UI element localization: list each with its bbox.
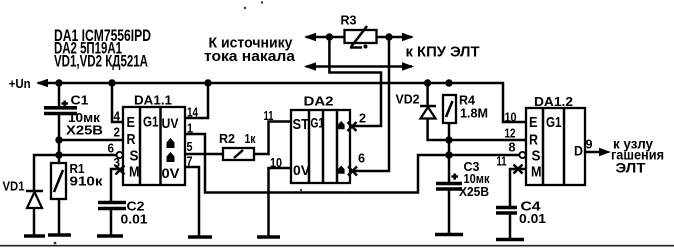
svg-text:10: 10 [270, 155, 282, 170]
ground R1 [48, 233, 71, 237]
svg-text:E: E [529, 114, 538, 131]
diode VD1 [26, 191, 43, 236]
node C1 S junction [55, 151, 62, 158]
svg-text:DA1.1: DA1.1 [134, 94, 172, 108]
ground C2 [97, 234, 123, 238]
wire from R3 right terminal to DA2 pin 6 [350, 37, 389, 171]
ground C4 [496, 238, 524, 242]
svg-text:ST: ST [293, 116, 310, 133]
x marker pin2 DA2 [348, 122, 357, 131]
svg-text:M: M [531, 164, 542, 181]
svg-text:5: 5 [187, 139, 193, 154]
svg-text:14: 14 [187, 105, 199, 120]
svg-text:G1: G1 [143, 114, 159, 131]
svg-text:DA2: DA2 [304, 95, 334, 109]
svg-text:10: 10 [505, 110, 517, 125]
resistor R2 [223, 148, 254, 160]
wire line B with arrows both ends [306, 65, 412, 68]
node R3 left [326, 33, 333, 40]
svg-text:S: S [532, 148, 541, 165]
ground VD1 [24, 234, 45, 238]
wire DA1.1 E pin from rail [112, 83, 123, 122]
diode VD2 [420, 83, 449, 140]
wire M to C2 [111, 169, 123, 202]
svg-text:UV: UV [162, 116, 179, 131]
node C1 R junction [55, 136, 62, 143]
ground DA1.1 [188, 235, 212, 239]
capacitor C1 [44, 83, 77, 163]
svg-text:D: D [574, 143, 583, 159]
svg-text:0V: 0V [162, 166, 180, 181]
trimmer resistor R3 [345, 26, 377, 49]
resistor R1 [51, 163, 66, 235]
svg-text:DA1.2: DA1.2 [534, 95, 573, 109]
svg-text:9: 9 [586, 137, 593, 152]
svg-text:C1: C1 [71, 93, 89, 108]
capacitor C2 [98, 203, 126, 237]
power +Un arrow [36, 79, 48, 87]
wire output pin5 to R2 [185, 153, 223, 156]
svg-text:4: 4 [114, 109, 121, 124]
svg-text:+Un: +Un [9, 76, 31, 91]
wire +Un supply rail [38, 83, 526, 122]
node rail C1 junction [55, 79, 62, 86]
op-amp timer DA1.1 [123, 107, 185, 185]
wire from R3 left terminal to DA2 pin 2 [329, 37, 381, 126]
svg-text:12: 12 [505, 126, 516, 141]
svg-text:S: S [130, 148, 139, 165]
wire discharge pin1 long run to DA1.2 S [185, 134, 520, 193]
svg-text:VD1,VD2 КД521А: VD1,VD2 КД521А [54, 52, 148, 71]
svg-text:X25B: X25B [459, 184, 489, 199]
svg-text:11: 11 [264, 108, 274, 123]
x marker pin6 DA2 [348, 167, 357, 176]
wire R line to DA1.2 [449, 139, 526, 142]
op-amp timer DA1.2 [526, 108, 585, 185]
speck [244, 7, 246, 9]
svg-text:910к: 910к [70, 174, 104, 189]
svg-text:8: 8 [509, 140, 516, 155]
wire to VD1 [34, 155, 59, 191]
node R4 VD2 junction [445, 136, 452, 143]
svg-text:2: 2 [359, 111, 366, 126]
wire output D pin9 arrow [585, 151, 602, 154]
ground C3 [435, 233, 463, 237]
node rail R4 junction [445, 79, 452, 86]
svg-text:11: 11 [497, 154, 507, 169]
node rail DA1.1 E junction [108, 79, 115, 86]
svg-text:1: 1 [187, 121, 193, 136]
svg-text:1к: 1к [245, 131, 256, 146]
converter DA2 [291, 110, 350, 183]
svg-text:R: R [127, 131, 136, 148]
wire S pin DA1.1 [59, 154, 117, 157]
wire R2 to DA2 ST [254, 122, 291, 155]
resistor R4 [443, 95, 456, 182]
node rail pin14 junction [204, 79, 211, 86]
x marker M DA1.2 [514, 165, 523, 174]
svg-text:VD1: VD1 [3, 180, 25, 194]
svg-text:X25B: X25B [66, 123, 103, 138]
svg-text:R3: R3 [341, 13, 357, 28]
svg-text:0.01: 0.01 [121, 212, 148, 227]
wire line A through R3 with arrows both ends [306, 36, 412, 39]
scan edge line bottom [0, 245, 674, 247]
svg-text:G1: G1 [546, 114, 562, 131]
wire R pin DA1.1 [59, 139, 123, 142]
svg-text:G1: G1 [311, 115, 325, 131]
svg-text:M: M [129, 164, 140, 181]
node rail VD2 junction [424, 79, 431, 86]
svg-text:0V: 0V [293, 163, 310, 178]
svg-text:7: 7 [187, 154, 193, 169]
wire M DA1.2 to C4 [510, 169, 526, 207]
circle inversion S DA1.1 [117, 152, 123, 158]
svg-text:2: 2 [114, 125, 121, 140]
svg-text:к КПУ ЭЛТ: к КПУ ЭЛТ [406, 44, 480, 61]
wire 0V pin7 to ground [185, 167, 199, 236]
svg-text:1.8M: 1.8M [460, 106, 488, 121]
x marker M DA1.1 [116, 166, 125, 175]
svg-text:6: 6 [108, 141, 115, 156]
svg-text:6: 6 [358, 151, 365, 166]
svg-text:R: R [529, 132, 538, 149]
capacitor C3 [436, 174, 462, 235]
svg-text:ЭЛТ: ЭЛТ [616, 161, 647, 176]
wire pin14 to rail [185, 83, 208, 118]
svg-text:0.01: 0.01 [519, 211, 546, 226]
svg-text:R2: R2 [219, 131, 235, 146]
node R4 S line junction [445, 151, 452, 158]
svg-text:E: E [127, 114, 136, 131]
capacitor C4 [496, 208, 517, 240]
svg-text:VD2: VD2 [396, 93, 420, 107]
circle inversion S DA1.2 [519, 152, 525, 158]
node R3 right [385, 33, 392, 40]
ground DA2 [257, 235, 280, 239]
svg-text:тока накала: тока накала [204, 49, 296, 65]
wire DA2 OV to ground [269, 168, 292, 236]
